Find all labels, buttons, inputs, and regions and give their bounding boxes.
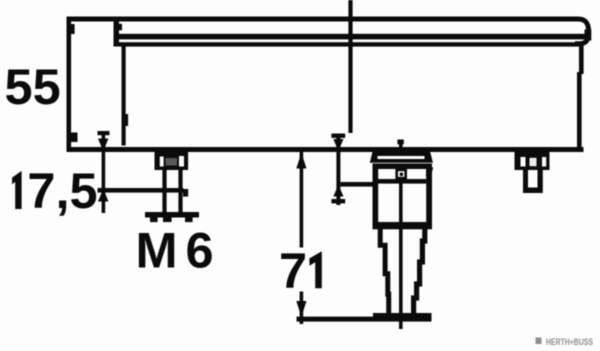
right stud M6 nut	[515, 150, 550, 170]
connector bolt dot	[400, 173, 403, 176]
mounting plane line left	[98, 188, 184, 193]
dimension 71 line upper	[300, 152, 304, 248]
housing rounded right end cap	[574, 19, 589, 44]
connector centerline stub	[397, 140, 403, 145]
left stud nut facet slot 1	[160, 157, 164, 167]
mounting plane bump	[183, 189, 188, 197]
svg-text:6: 6	[186, 222, 214, 279]
dimension 71 arrow down	[296, 301, 306, 317]
dimension 71 line lower	[300, 292, 304, 325]
right stud shank outline	[523, 170, 543, 193]
housing bottom edge	[67, 147, 584, 152]
dimension 17,5 arrow down	[98, 139, 108, 152]
connector body outline	[373, 164, 433, 230]
connector bolt square bore	[398, 171, 404, 177]
center small dimension arrow up	[333, 185, 343, 197]
right stud shank bore	[528, 170, 538, 188]
mounting plane line center	[340, 182, 373, 187]
right stud nut facet slot 1	[521, 157, 526, 167]
connector divider line	[378, 179, 426, 184]
center small dimension tail top	[331, 134, 345, 138]
dimension 17,5 arrow up	[98, 189, 108, 202]
lid left edge	[114, 17, 120, 47]
connector right notch	[426, 166, 433, 179]
center small dimension line	[336, 134, 340, 206]
left stud nut facet slot 3	[179, 156, 184, 167]
connector inner centerline	[399, 184, 403, 330]
lens seam upper line	[119, 34, 586, 40]
connector centerline stub lower	[399, 144, 403, 152]
lens seam lower line	[119, 42, 583, 46]
connector body cavity	[378, 169, 426, 222]
cable boot right wall	[414, 229, 425, 314]
cable end bar extension line	[297, 317, 374, 322]
housing top edge line	[67, 17, 578, 22]
housing left outer edge	[67, 17, 72, 153]
connector bolt square	[395, 169, 407, 179]
cable end bar	[373, 313, 432, 322]
left stud shank left wall	[162, 170, 166, 212]
dimension 17,5 tail bar top	[98, 131, 110, 135]
left stud M6 nut	[155, 150, 189, 170]
left stud thread tooth 1	[150, 218, 158, 223]
watermark logo mark	[536, 338, 542, 345]
right stud nut facet slot 2	[530, 158, 537, 166]
vertical centerline	[348, 0, 352, 133]
svg-text:55: 55	[5, 58, 61, 115]
housing right end cap bump	[585, 30, 592, 41]
left stud thread tooth 2	[163, 218, 172, 223]
left stud thread tooth 3	[185, 218, 193, 223]
connector mounting plate	[370, 151, 433, 162]
housing right edge upper	[579, 45, 584, 74]
cable boot left wall	[380, 229, 389, 314]
svg-text:M: M	[136, 222, 178, 279]
center small dimension tail bottom	[331, 199, 345, 203]
dimension 17,5 label digit 1	[12, 171, 22, 209]
svg-text:HERTH+BUSS: HERTH+BUSS	[546, 337, 593, 348]
lid left clip	[119, 24, 122, 31]
svg-text:7,5: 7,5	[27, 162, 97, 219]
housing inner left tab	[126, 114, 129, 126]
svg-text:7: 7	[279, 242, 307, 299]
dimension 17,5 line	[102, 131, 106, 213]
left stud nut facet slot 2	[166, 158, 178, 166]
housing left lower tab	[71, 133, 78, 143]
dimension 71 label digit 1	[309, 251, 321, 288]
center small dimension arrow down	[333, 139, 343, 151]
housing inner left edge	[122, 47, 126, 146]
left stud end bar	[145, 212, 199, 218]
housing right edge lower	[577, 72, 582, 152]
connector plate sliver	[378, 156, 425, 159]
right stud nut facet slot 3	[542, 157, 546, 167]
left stud shank right wall	[178, 170, 182, 212]
dimension 71 arrow up	[296, 153, 306, 169]
housing left upper tab	[71, 24, 75, 34]
